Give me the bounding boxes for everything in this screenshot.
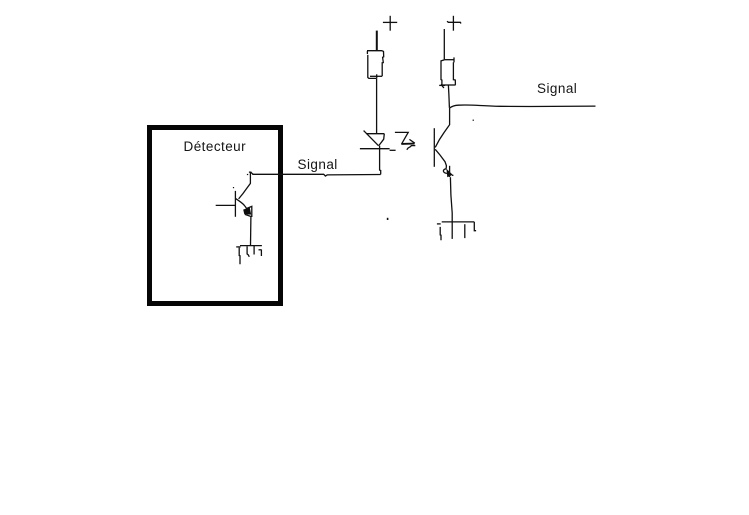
ground (detector)	[236, 246, 262, 265]
wire: plus to resistor R2	[443, 29, 445, 60]
Q1 emitter arrow	[243, 207, 251, 214]
wire: plus to resistor R1	[376, 31, 378, 51]
wire: LED D1 cathode down to Signal wire	[380, 146, 381, 175]
Q1 base lead	[216, 204, 235, 206]
wire: R1 to LED D1	[376, 78, 378, 133]
stray dot near Q1 base	[233, 187, 234, 188]
Q1 emitter	[236, 199, 247, 209]
resistor R1	[367, 51, 384, 79]
Q2 emitter arrow nub	[452, 174, 454, 176]
wire: junction to Signal (right)	[450, 105, 596, 108]
svg-text:Détecteur: Détecteur	[184, 139, 247, 154]
Q2 emitter arrow loop	[443, 169, 447, 174]
stray dot near Q1 collector	[247, 174, 248, 175]
Q1 emitter arrow base stroke	[245, 214, 252, 216]
wire: detector output to LED (Signal)	[252, 174, 380, 176]
wire: R2 to collector junction	[448, 85, 449, 107]
Q1 emitter arrow hook	[247, 206, 252, 217]
LED D1	[360, 131, 396, 151]
Q2 emitter wire	[450, 177, 452, 222]
stray dot right of collector	[473, 120, 474, 121]
Q1 base bar	[234, 191, 236, 217]
light arrows Z	[395, 132, 415, 149]
plus supply (LED branch)	[383, 16, 397, 31]
Q2 emitter arrow	[446, 169, 452, 178]
detector box	[150, 128, 281, 304]
svg-text:Signal: Signal	[537, 81, 577, 96]
phototransistor Q2	[434, 108, 453, 222]
Q2 emitter	[435, 149, 446, 168]
Q2 emitter arrow shaft	[449, 166, 451, 177]
plus supply (phototransistor branch)	[447, 16, 461, 31]
Q1 collector	[239, 172, 251, 199]
Q1 emitter wire	[250, 217, 252, 246]
svg-text:Signal: Signal	[298, 157, 338, 172]
Q2 collector	[435, 108, 449, 147]
Q1 collector hook	[249, 172, 253, 174]
ground (phototransistor)	[437, 222, 476, 240]
resistor R2	[439, 57, 455, 88]
stray dot below LED	[387, 218, 389, 220]
Q2 base bar	[433, 128, 435, 167]
transistor Q1 (inside detector)	[216, 172, 254, 245]
